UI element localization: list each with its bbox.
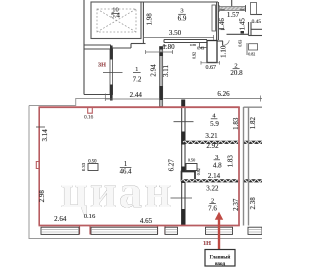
svg-text:6.27: 6.27 [167,159,175,172]
svg-text:3.11: 3.11 [162,65,170,77]
svg-text:4.65: 4.65 [140,217,153,225]
svg-text:3.50: 3.50 [169,29,182,37]
svg-text:0.50: 0.50 [188,157,195,162]
svg-text:2.37: 2.37 [232,198,240,211]
svg-text:2.38: 2.38 [249,197,257,210]
svg-text:вход: вход [215,261,226,267]
svg-text:Главный: Главный [210,253,231,260]
svg-text:0.43: 0.43 [197,45,204,50]
svg-text:5.4: 5.4 [111,12,120,20]
svg-text:1.80: 1.80 [162,43,175,51]
svg-text:2.14: 2.14 [208,172,221,180]
svg-text:2.94: 2.94 [149,64,157,77]
svg-text:1Н: 1Н [203,240,211,247]
svg-text:0.67: 0.67 [206,65,217,71]
svg-text:6.26: 6.26 [217,90,230,98]
svg-text:46.4: 46.4 [120,168,132,175]
svg-text:1.82: 1.82 [249,116,257,129]
svg-text:3Н: 3Н [98,61,106,68]
svg-text:20.8: 20.8 [230,69,243,77]
svg-text:1.57: 1.57 [227,11,240,19]
svg-text:0.45: 0.45 [252,19,262,25]
svg-text:5.9: 5.9 [210,120,219,128]
svg-text:0.16: 0.16 [84,115,93,121]
svg-text:7.2: 7.2 [133,75,142,83]
svg-text:1.46: 1.46 [218,18,226,31]
svg-text:1.83: 1.83 [227,155,235,168]
svg-text:2.64: 2.64 [54,215,67,223]
svg-text:1.83: 1.83 [232,117,240,130]
svg-text:1.10: 1.10 [220,45,228,58]
svg-text:0.58: 0.58 [190,43,196,47]
svg-text:0.63: 0.63 [237,40,242,47]
svg-text:6.9: 6.9 [178,15,187,23]
svg-text:2.92: 2.92 [206,142,219,150]
svg-text:3.21: 3.21 [205,132,218,140]
svg-text:0.50: 0.50 [88,159,97,164]
svg-text:4.8: 4.8 [213,162,222,170]
svg-text:3.14: 3.14 [41,129,49,142]
svg-text:циан: циан [61,166,174,218]
svg-text:0.82: 0.82 [248,52,255,57]
svg-text:7.6: 7.6 [208,205,217,213]
svg-text:2.44: 2.44 [130,91,143,99]
svg-text:0.16: 0.16 [84,213,96,220]
svg-text:0.33: 0.33 [81,162,86,171]
svg-text:0.92: 0.92 [196,168,201,175]
svg-text:3.22: 3.22 [206,184,219,192]
svg-text:1.98: 1.98 [145,13,153,26]
svg-text:1: 1 [124,161,127,168]
svg-text:1.45: 1.45 [239,18,247,31]
svg-text:2.98: 2.98 [38,190,46,203]
svg-text:0.92: 0.92 [191,52,196,59]
